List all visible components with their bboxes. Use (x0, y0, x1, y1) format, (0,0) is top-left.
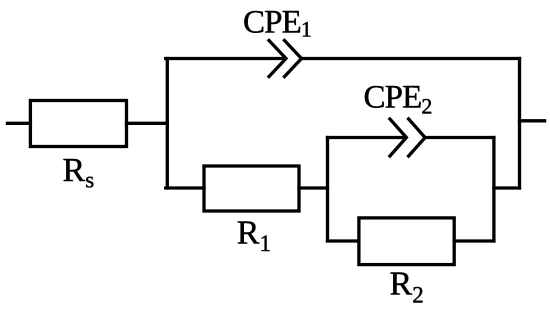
CPE1 chevron 2 (285, 41, 302, 77)
svg-text:R2: R2 (390, 266, 424, 308)
svg-text:R1: R1 (237, 215, 271, 257)
node C block right vertical (492, 138, 495, 242)
resistor Rs (30, 101, 126, 147)
wire right outer vertical (518, 59, 521, 189)
CPE2 chevron 2 (409, 119, 426, 156)
wire top rail left segment (166, 57, 284, 60)
wire R1 to node B (299, 186, 328, 189)
resistor R1 (204, 166, 299, 211)
node A left branch vertical (166, 59, 169, 189)
resistor R2 (359, 218, 454, 265)
wire CPE2 rail left segment (328, 136, 404, 139)
wire R2 rail right segment (454, 239, 494, 242)
wire node A to R1 (166, 186, 204, 189)
CPE2 chevron 1 (390, 119, 407, 156)
wire Rs to node A (127, 122, 168, 125)
wire R2 rail left segment (328, 239, 359, 242)
wire jog inner block to right vertical (494, 186, 520, 189)
wire top rail right segment (302, 57, 520, 60)
svg-text:CPE2: CPE2 (364, 80, 433, 119)
wire output lead right (520, 119, 545, 122)
svg-text:Rs: Rs (63, 152, 95, 193)
wire CPE2 rail right segment (425, 136, 494, 139)
CPE1 chevron 1 (269, 41, 286, 77)
wire input lead left (8, 122, 31, 125)
node B block left vertical (326, 138, 329, 242)
svg-text:CPE1: CPE1 (243, 5, 312, 42)
